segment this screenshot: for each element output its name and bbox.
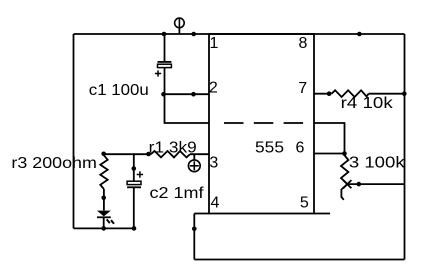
svg-text:r4 10k: r4 10k	[341, 95, 394, 112]
IC U1 555 body	[209, 34, 314, 214]
power terminal P1	[175, 18, 185, 34]
svg-text:3 100k: 3 100k	[349, 155, 406, 172]
wire bottom left	[74, 227, 135, 229]
junction c2 plus	[132, 166, 137, 171]
junction pin4 drop dot	[192, 227, 197, 232]
wire r1 to pin3	[190, 153, 209, 155]
svg-text:4: 4	[211, 195, 220, 212]
svg-text:6: 6	[296, 140, 305, 157]
junction led bottom	[101, 226, 106, 231]
resistor R4 10k	[332, 90, 369, 97]
svg-text:1: 1	[210, 35, 219, 52]
junction c1 bottom	[161, 92, 166, 97]
junction r4 left	[327, 91, 332, 96]
junction pin6 pot	[342, 151, 347, 156]
junction c1 top	[162, 32, 167, 37]
LED D1	[97, 211, 114, 229]
junction wiper	[357, 182, 362, 187]
junction c2 bottom	[132, 226, 137, 231]
svg-text:3: 3	[209, 155, 218, 172]
svg-text:r1 3k9: r1 3k9	[149, 140, 197, 157]
junction r3 top	[101, 152, 106, 157]
svg-text:c2 1mf: c2 1mf	[150, 185, 205, 202]
svg-text:5: 5	[300, 195, 309, 212]
dashed link pin2-pin6 inside IC	[224, 122, 303, 124]
junction r3 bottom	[101, 196, 106, 201]
capacitor C1	[155, 34, 172, 94]
svg-text:8: 8	[299, 35, 308, 52]
svg-text:2: 2	[209, 80, 218, 97]
junction pin2	[191, 92, 196, 97]
junction r4 right	[402, 91, 407, 96]
output terminal pin3	[188, 154, 200, 172]
svg-text:c1 100u: c1 100u	[89, 82, 149, 99]
wire r4 to rail	[369, 93, 405, 95]
svg-text:7: 7	[298, 80, 307, 97]
wire pin3	[104, 153, 151, 155]
wire pin4 stub	[194, 213, 209, 215]
wire pin6	[314, 153, 345, 155]
wiper arrow	[343, 180, 404, 188]
wire right rail	[404, 34, 406, 260]
wire left rail	[73, 34, 75, 228]
wire r3 to led	[103, 189, 105, 210]
wire pin2	[164, 93, 210, 95]
wire pin7	[314, 93, 332, 95]
wire pin5 stub	[314, 213, 330, 215]
wire pin4 drop	[193, 214, 195, 260]
svg-text:555: 555	[255, 140, 284, 157]
junction power row	[191, 32, 196, 37]
resistor R1 3k9	[151, 151, 190, 157]
wire bottom	[194, 259, 404, 261]
wire dashed link to pin6	[314, 123, 345, 154]
capacitor C2	[127, 154, 143, 228]
potentiometer R2 100k	[341, 154, 348, 200]
junction r1 left	[146, 152, 151, 157]
svg-text:r3 200ohm: r3 200ohm	[11, 155, 97, 172]
wire top V+ rail	[74, 33, 405, 35]
resistor R3 200ohm	[100, 155, 107, 189]
junction pin8 row	[357, 32, 362, 37]
wire pin2 to dashed link	[165, 94, 210, 123]
